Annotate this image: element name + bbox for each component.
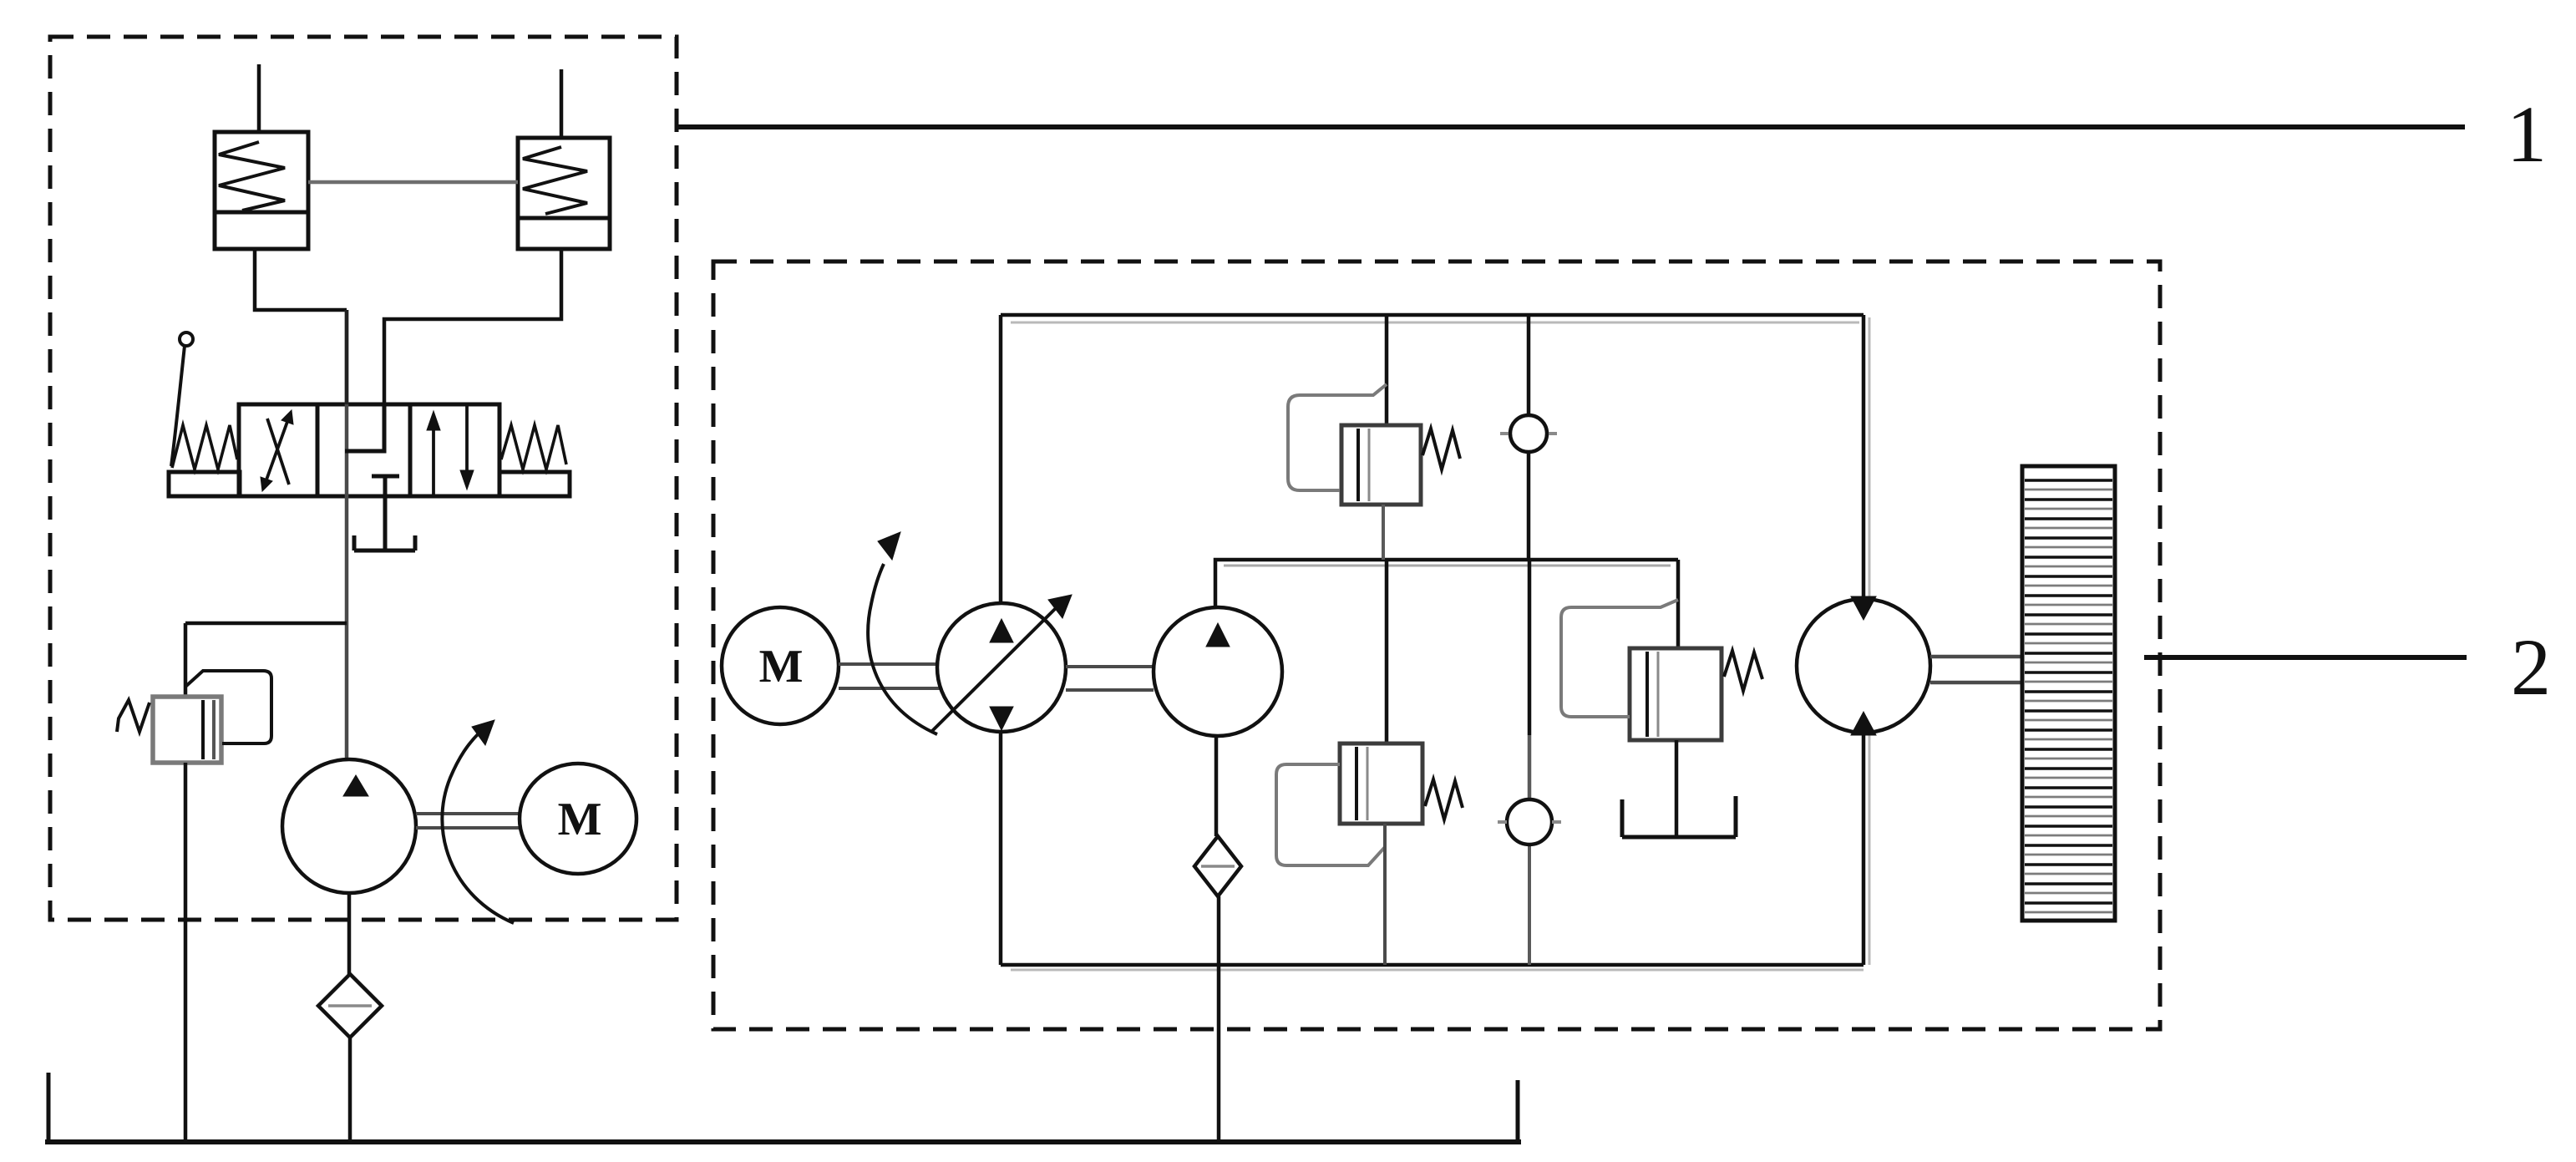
shaft variable pump-charge pump	[1066, 667, 1154, 690]
svg-text:1: 1	[2507, 89, 2547, 179]
brake cylinder left	[215, 64, 308, 249]
pump 1	[282, 759, 416, 893]
wire right brake to valve	[384, 249, 561, 404]
check valve 1 wire	[1527, 315, 1531, 560]
svg-text:M: M	[558, 794, 602, 845]
charge line	[1215, 560, 1678, 607]
pilot relief valve left	[117, 671, 271, 763]
check valve 2 wire	[1528, 560, 1532, 965]
check valve 2	[1498, 799, 1561, 845]
rotation arrow 1	[442, 720, 514, 923]
brake cylinder right	[518, 69, 610, 249]
relief valve C drain	[1383, 824, 1387, 965]
valve spring right	[501, 425, 566, 469]
electric motor M1	[520, 764, 636, 874]
valve left position crossed arrows	[261, 410, 293, 491]
charge pump suction with filter 2	[1194, 736, 1241, 1142]
shaft pump1-motor1	[416, 814, 520, 828]
relief branch wire	[185, 623, 347, 697]
hydraulic motor	[1797, 596, 1930, 735]
gear rack	[2022, 466, 2115, 921]
suction line with filter 1	[318, 893, 382, 1142]
wire left brake to supply	[255, 249, 347, 310]
relief drain wire to tank	[184, 763, 188, 1142]
valve centre position blocked port	[345, 404, 399, 496]
variable displacement pump	[932, 595, 1072, 732]
label 2 leader line	[2144, 655, 2467, 660]
valve right position parallel arrows	[427, 404, 474, 496]
relief valve C riser	[1385, 560, 1389, 743]
valve end box left	[169, 472, 240, 496]
charge pump	[1154, 607, 1282, 736]
valve end box right	[499, 472, 570, 496]
relief valve A	[1288, 384, 1460, 505]
relief valve A riser	[1385, 315, 1389, 425]
relief valve D riser	[1676, 560, 1681, 648]
shaft motor2-variable pump	[839, 664, 940, 688]
subsystem 2 dashed border	[713, 261, 2160, 1029]
shaft motor-gear	[1930, 657, 2022, 682]
electric motor M2	[722, 607, 839, 724]
svg-text:M: M	[759, 641, 804, 693]
relief valve A drain	[1382, 505, 1385, 560]
subsystem 1 dashed border	[50, 37, 677, 920]
svg-text:2: 2	[2511, 622, 2551, 712]
rotation arrow 2	[868, 532, 937, 734]
supply line through valve to pump	[345, 310, 349, 759]
label 1 leader line	[677, 124, 2465, 129]
valve spring left	[172, 425, 237, 469]
closed circuit loop	[1001, 315, 1869, 970]
tank line	[45, 1073, 1521, 1142]
directional valve body	[239, 404, 499, 496]
valve lever with knob	[171, 332, 193, 466]
relief valve D drain and tank	[1622, 740, 1736, 837]
relief valve C	[1276, 743, 1463, 865]
wire between brake cylinders	[308, 180, 518, 185]
relief valve D	[1561, 600, 1762, 740]
check valve 1	[1500, 415, 1557, 452]
tank symbol below valve	[354, 496, 415, 551]
